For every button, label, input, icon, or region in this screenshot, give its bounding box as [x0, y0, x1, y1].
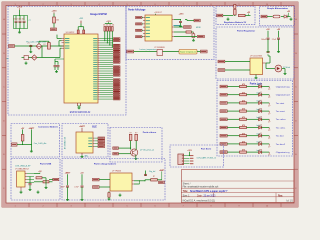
wire: [77, 27, 79, 30]
label D+ (usb): [53, 178, 59, 180]
svg-text:AT-09 BLE 4.0: AT-09 BLE 4.0: [64, 137, 67, 149]
resistor R7: [186, 31, 191, 33]
section frame Port Serie: [170, 145, 224, 167]
svg-text:D?: D?: [268, 130, 270, 132]
svg-text:Simple Alimentation: Simple Alimentation: [267, 7, 289, 10]
wire: [39, 40, 49, 42]
svg-text:led_a: led_a: [257, 117, 261, 119]
wire: [247, 143, 259, 145]
pin rows U5 right: [88, 138, 98, 147]
led D12: [259, 133, 262, 138]
wire: [142, 36, 143, 38]
svg-text:U? TP4056: U? TP4056: [112, 171, 121, 173]
ground (batt): [30, 150, 33, 153]
led D11: [259, 125, 262, 130]
svg-text:100nF: 100nF: [60, 186, 65, 188]
pin stub U6 right 1: [132, 180, 134, 182]
label BLE 4: [98, 145, 105, 147]
label Temperature (left): [127, 50, 134, 53]
wire: [57, 38, 62, 40]
svg-text:led_a: led_a: [257, 92, 261, 94]
section frame Simple Alimentation: [260, 6, 295, 26]
hierarchical labels (U1 right): [113, 38, 120, 100]
label IO0 (left): [9, 45, 15, 48]
ground (J4 a): [20, 187, 23, 193]
label LED row 5 (left): [220, 118, 227, 121]
wire (riser R3): [104, 31, 106, 41]
wire: [247, 86, 259, 88]
capacitor 100nF (charge): [60, 186, 69, 188]
wire: [78, 105, 81, 107]
transistor Q2: [131, 149, 138, 156]
label vibreur 2: [113, 153, 119, 155]
pin stub U4 right: [263, 62, 267, 64]
charger U6 TP4056: [110, 173, 132, 191]
ground (Q2): [134, 157, 137, 160]
wire: [191, 31, 193, 33]
wire: [30, 47, 32, 51]
junction: [130, 148, 131, 149]
svg-text:10k: 10k: [56, 20, 59, 22]
svg-text:+3V3: +3V3: [79, 18, 83, 20]
ground (reg): [227, 18, 230, 21]
wire: [247, 102, 259, 104]
svg-text:led_a: led_a: [257, 109, 261, 111]
ground (Q1): [192, 39, 195, 42]
svg-text:+BATT: +BATT: [29, 127, 36, 130]
svg-text:Size: 1: Size: 1: [183, 195, 191, 197]
label (reg in 2): [218, 69, 225, 72]
wire: [262, 151, 270, 153]
resistor R11: [240, 100, 247, 105]
label vibreur 1: [113, 147, 119, 149]
wire (riser R5): [109, 31, 111, 45]
label (row2): [184, 26, 192, 29]
wire: [134, 180, 145, 182]
svg-text:25 avr 2023: 25 avr 2023: [204, 194, 217, 197]
resistor R10: [240, 91, 247, 95]
svg-text:Clignotant e-g: Clignotant e-g: [276, 151, 290, 154]
label EN: [51, 28, 57, 31]
svg-text:Partie Regulateur: Partie Regulateur: [237, 29, 255, 32]
capacitor 100uF: [261, 38, 269, 41]
ground (U1): [78, 106, 81, 109]
power mark (row 4): [268, 111, 270, 115]
wire: [278, 39, 280, 50]
svg-text:Regulateur Batterie 5V: Regulateur Batterie 5V: [224, 21, 247, 24]
wire: [227, 94, 239, 96]
junction: [22, 144, 23, 145]
svg-text:D?: D?: [268, 105, 270, 107]
svg-text:led_a: led_a: [257, 150, 261, 152]
label U2 left 6: [136, 36, 142, 38]
ground (alim): [290, 18, 293, 21]
wire: [53, 14, 55, 18]
wire: [266, 62, 270, 64]
wire: [267, 16, 273, 18]
junction: [180, 19, 181, 20]
label LED row 4 (left): [220, 110, 227, 113]
wire: [174, 36, 197, 38]
svg-text:Title:: Title:: [183, 190, 189, 193]
pin stub U1 bottom 2: [80, 103, 82, 106]
resistor R8: [239, 14, 246, 16]
section frame Partie USB: [11, 159, 60, 201]
svg-text:Saisie temperature: Saisie temperature: [180, 51, 196, 54]
wire: [28, 57, 31, 59]
label (reg in 1): [218, 60, 225, 63]
wire: [15, 45, 64, 47]
wire: [59, 45, 62, 47]
diode D1: [36, 43, 46, 49]
capacitor C1: [15, 16, 18, 29]
wire: [135, 141, 137, 148]
label charge out: [159, 181, 165, 183]
wire: [262, 118, 270, 120]
section frame Image ESP32: [8, 6, 126, 115]
power +BATT (charge out): [159, 169, 165, 180]
svg-text:CON_USB4_A_M?: CON_USB4_A_M?: [15, 165, 30, 168]
label LED row 7 (left): [220, 134, 227, 137]
section frame Connecteur Batterie: [11, 124, 60, 158]
wire: [38, 41, 40, 43]
wire: [17, 144, 31, 146]
wire: [247, 118, 259, 120]
wire: [135, 155, 137, 157]
wire: [49, 179, 53, 181]
label (temp right): [201, 50, 208, 53]
wire: [99, 186, 110, 188]
wire: [118, 153, 130, 155]
resistor R16: [240, 141, 247, 146]
power +3V3 (resistor network): [105, 21, 113, 24]
svg-text:D?: D?: [268, 89, 270, 91]
section frame BLE: [62, 124, 108, 158]
wire: [262, 135, 270, 137]
wire: [245, 15, 250, 17]
svg-text:SmartWatch GPS e-paper esp32 ?: SmartWatch GPS e-paper esp32 ?: [190, 190, 228, 193]
svg-text:100uF: 100uF: [261, 39, 266, 41]
title block kicad id: [183, 200, 294, 203]
wire: [59, 40, 62, 42]
ground (led): [284, 72, 287, 75]
section frame Partie charge batterie: [62, 159, 165, 201]
power +BATT (batt): [29, 127, 36, 145]
led D6: [259, 84, 262, 89]
svg-text:U? LD1117S33: U? LD1117S33: [250, 56, 262, 58]
title block row lines: [181, 180, 294, 182]
ground (U4): [255, 75, 258, 79]
label LED row 2 (left): [220, 93, 227, 96]
junction: [19, 15, 20, 16]
svg-text:Connecteur Batterie: Connecteur Batterie: [38, 125, 59, 128]
svg-text:Tec start: Tec start: [276, 102, 285, 105]
svg-text:Tec dice2: Tec dice2: [276, 144, 286, 146]
junction: [48, 45, 49, 46]
svg-text:Clignotant ard: Clignotant ard: [276, 94, 290, 97]
connector J3: [178, 154, 184, 165]
svg-text:Partie vibreur: Partie vibreur: [143, 131, 157, 134]
svg-text:Tec react: Tec react: [276, 110, 285, 113]
wire (riser R6): [111, 31, 113, 47]
resistor R1: [53, 17, 56, 23]
svg-text:Date:: Date:: [197, 194, 203, 197]
wire: [142, 17, 143, 19]
power mark (row 3): [268, 103, 270, 107]
resistor R18: [129, 133, 132, 141]
wire: [135, 147, 137, 149]
push button SW1: [22, 56, 29, 60]
ground: [66, 198, 69, 201]
resistor R14: [240, 124, 247, 129]
section frame Partie Leds: [217, 81, 293, 157]
power mark (row 7): [268, 136, 270, 140]
label LED row 3 (left): [220, 102, 227, 105]
wire: [247, 127, 259, 129]
resistor R22: [145, 176, 162, 181]
fuse F1: [273, 15, 280, 18]
wire: [262, 127, 270, 129]
svg-text:Chg_led: Chg_led: [149, 171, 155, 173]
section frame Partie Affichage: [126, 6, 214, 60]
wire (riser R4): [106, 31, 108, 43]
wire: [262, 143, 270, 145]
wire: [67, 187, 69, 198]
svg-text:Clignotant arg: Clignotant arg: [276, 85, 290, 88]
section frame Partie Regulateur: [216, 27, 294, 79]
section frame Regulateur Batterie 5V: [216, 6, 255, 24]
svg-text:CON_UART_PicKit3_v2: CON_UART_PicKit3_v2: [197, 157, 216, 160]
wire: [267, 39, 269, 50]
wire: [227, 86, 239, 88]
wire: [99, 179, 110, 181]
power mark (row 5): [268, 119, 270, 123]
wire: [197, 51, 201, 53]
wire: [225, 61, 250, 63]
label U2 left 2: [136, 23, 142, 25]
connector J4 USB: [17, 171, 25, 187]
wire: [134, 51, 157, 53]
label BLE 3: [98, 143, 105, 145]
svg-text:J? USB4-MELKZ: J? USB4-MELKZ: [15, 169, 30, 171]
svg-text:D?: D?: [268, 122, 270, 124]
power +3V3 (serial): [187, 150, 191, 155]
ground: [267, 50, 270, 53]
connector J2: [12, 143, 18, 146]
label BLE 2: [98, 140, 105, 142]
svg-text:+BATT: +BATT: [79, 125, 86, 128]
svg-text:Rev:: Rev:: [278, 195, 283, 197]
title block frame: [181, 170, 294, 203]
value labels 100nF: [13, 19, 24, 21]
pin stub U6 right 2: [132, 183, 134, 185]
svg-text:BLE: BLE: [92, 126, 97, 128]
wire: [60, 47, 62, 49]
label U2 left 0: [136, 16, 142, 18]
pin names U1 left: [65, 38, 70, 49]
pin stub U2 right 1: [172, 19, 174, 21]
regulator U4: [250, 58, 263, 75]
svg-text:Sheet: /: Sheet: /: [183, 182, 191, 185]
junction: [189, 155, 190, 156]
junction: [234, 15, 235, 16]
capacitor C9: [29, 177, 32, 189]
svg-text:100n 100n 10u: 100n 100n 10u: [13, 19, 24, 21]
power mark (row 9): [268, 152, 270, 156]
resistor R17: [21, 135, 24, 142]
svg-text:Partie USB: Partie USB: [40, 162, 52, 165]
junction: [31, 144, 32, 145]
wire: [53, 23, 55, 28]
wire: [37, 57, 42, 59]
resistor R19: [135, 133, 138, 141]
svg-text:R?: R?: [153, 176, 155, 178]
wire: [19, 10, 21, 16]
svg-text:MOSI: MOSI: [196, 27, 201, 29]
label charge in 2: [93, 186, 100, 189]
svg-text:D?: D?: [268, 146, 270, 148]
diode D4: [284, 15, 287, 18]
resistor R21: [34, 181, 53, 183]
module U5 HM-10: [76, 132, 93, 153]
pin rows J3: [184, 155, 194, 164]
svg-text:led_a: led_a: [257, 101, 261, 103]
power +5V (cap 100uF): [266, 29, 270, 37]
wire: [48, 41, 50, 42]
svg-text:led_a: led_a: [257, 125, 261, 127]
led D7: [259, 92, 262, 97]
wire: [186, 20, 188, 21]
wire: [174, 26, 183, 28]
wire: [247, 135, 259, 137]
svg-text:led_a: led_a: [257, 84, 261, 86]
svg-text:+3V3: +3V3: [266, 52, 270, 54]
label LED row 1 (left): [220, 85, 227, 88]
resistor R2: [48, 43, 51, 50]
wire: [54, 59, 56, 62]
wire: [262, 110, 270, 112]
power mark (row 8): [268, 144, 270, 148]
svg-text:Tec dice: Tec dice: [276, 136, 285, 138]
svg-text:+3V3: +3V3: [106, 21, 110, 23]
power +3V3 (VDD): [80, 21, 82, 24]
wire: [163, 51, 180, 53]
ground: [81, 198, 84, 201]
pin stub U2 right 3: [172, 31, 174, 33]
wire: [282, 68, 285, 70]
wire: [180, 20, 182, 21]
wire: [281, 16, 284, 18]
svg-text:led_a: led_a: [257, 133, 261, 135]
pin rows U1 right with wires: [93, 38, 113, 99]
label TFTled: [198, 35, 205, 38]
led D9: [259, 108, 262, 113]
led D14: [259, 149, 262, 154]
wire: [262, 86, 270, 88]
svg-text:C?: C?: [29, 20, 31, 22]
pin stub U1 left 1: [62, 38, 65, 40]
ground: [29, 50, 32, 53]
svg-text:D?: D?: [43, 44, 45, 46]
wire: [247, 151, 259, 153]
svg-text:Port Serie: Port Serie: [201, 148, 212, 151]
label LCD: [194, 19, 200, 22]
wire: [144, 180, 146, 181]
pin rows J4: [25, 174, 34, 183]
resistor R12: [240, 108, 247, 113]
resistor R9: [240, 83, 247, 88]
pin stub U1 left 3: [62, 42, 65, 44]
svg-text:File: smartwatch-montre-mobile: File: smartwatch-montre-mobile.sch: [183, 186, 219, 189]
power +BATT (charge cap): [65, 172, 72, 186]
wire: [41, 46, 43, 58]
pin stub U1 left 4: [62, 45, 65, 47]
resistor R17: [240, 149, 247, 154]
ground (button): [25, 62, 28, 65]
wire (cap bank loop): [14, 16, 28, 29]
led D13: [259, 141, 262, 146]
power +5V (cap 2.2uF): [277, 29, 281, 37]
ground (C5 C6): [55, 70, 58, 73]
ground (C8): [179, 25, 182, 28]
wire: [227, 127, 239, 129]
svg-text:led_a: led_a: [257, 142, 261, 144]
power +5V (reg out): [247, 12, 251, 16]
wire: [80, 23, 82, 26]
wire: [78, 26, 84, 28]
label LED row 6 (left): [220, 126, 227, 129]
wire: [227, 102, 239, 104]
pin stub U2 right 4: [172, 36, 174, 38]
diode D3: [234, 5, 236, 9]
section frame Partie vibreur: [110, 128, 162, 163]
capacitor 4.7uF (charge): [74, 186, 83, 188]
svg-text:+3V3: +3V3: [17, 6, 23, 8]
label charge in 1: [93, 178, 100, 181]
wire: [134, 183, 140, 185]
svg-text:D?: D?: [268, 114, 270, 116]
capacitor 2.2uF: [272, 38, 280, 41]
capacitor C8: [179, 21, 182, 24]
note box Saisie temperature: [179, 49, 197, 54]
svg-text:Tec color+: Tec color+: [276, 118, 287, 121]
capacitor C6: [57, 62, 60, 71]
svg-text:ESP32-WROOM-32: ESP32-WROOM-32: [70, 112, 91, 114]
wire: [262, 102, 270, 104]
power +3V3 (display): [154, 12, 163, 15]
wire: [227, 118, 239, 120]
wire: [223, 15, 233, 17]
pin stub U1 bottom 1: [77, 103, 79, 106]
power +BATT (BLE): [79, 125, 86, 132]
resistor R20: [36, 177, 46, 179]
svg-text:2.2uF: 2.2uF: [272, 39, 276, 41]
wire: [227, 110, 239, 112]
label LED row 8 (left): [220, 143, 227, 146]
svg-text:Image ESP32: Image ESP32: [90, 12, 107, 16]
wire: [227, 143, 239, 145]
capacitor C4: [27, 43, 32, 46]
mcu U1 ESP32-WROOM-32: [64, 34, 98, 103]
ground (J4 b): [37, 191, 40, 194]
power +5V (batt): [21, 128, 25, 135]
wire: [225, 69, 250, 71]
svg-text:Q? irlm_pmos_a2: Q? irlm_pmos_a2: [140, 150, 154, 152]
pin stub U2 right 2: [172, 26, 174, 28]
svg-text:KiCad E.D.A. eeschema (6.0.11: KiCad E.D.A. eeschema (6.0.11): [183, 200, 216, 203]
ground (U6): [119, 194, 122, 197]
wire: [265, 63, 267, 69]
